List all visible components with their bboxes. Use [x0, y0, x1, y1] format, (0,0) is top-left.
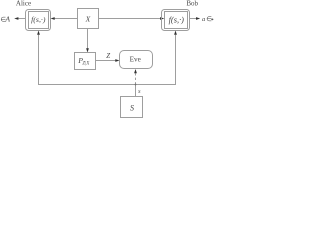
wire s bus horizontal: [38, 84, 176, 86]
svg-text:X: X: [85, 15, 91, 24]
arrowhead into Alice: [51, 17, 55, 20]
wire X down to PZ|X: [87, 29, 89, 50]
block Alice f(s,.): [29, 12, 49, 29]
block PZ|X: [75, 53, 96, 70]
node A tip (clipped calligraphic A): [211, 19, 213, 21]
block Bob container (rounded): [162, 10, 190, 31]
junction s bus: [135, 84, 137, 86]
wire Alice to X: [54, 18, 78, 20]
block Eve (rounded): [120, 51, 153, 69]
block X: [78, 9, 99, 29]
svg-text:S: S: [130, 104, 134, 113]
svg-text:Bob: Bob: [186, 0, 198, 8]
arrowhead to a: [196, 17, 200, 20]
svg-text:A: A: [4, 14, 10, 23]
arrowhead into Bob bottom: [174, 31, 177, 35]
svg-text:Eve: Eve: [130, 56, 141, 64]
wire s up to Bob: [175, 35, 177, 85]
arrowhead into PZ|X: [86, 48, 89, 52]
block Bob f(s,.): [165, 12, 188, 29]
wire dashed s to Eve: [135, 73, 137, 85]
wire X to Bob: [99, 18, 162, 20]
wire Bob output right: [190, 18, 197, 20]
wire Z from PZ|X to Eve: [96, 60, 117, 62]
wire S box up to bus: [135, 85, 137, 97]
arrowhead into Alice bottom: [37, 31, 40, 35]
svg-text:Z|X: Z|X: [82, 62, 90, 67]
svg-text:Z: Z: [106, 52, 110, 60]
svg-text:Alice: Alice: [16, 0, 31, 8]
block S source: [121, 97, 143, 118]
arrowhead into Eve bottom: [134, 69, 137, 73]
wire s up to Alice: [38, 35, 40, 85]
arrowhead into Bob: [160, 17, 164, 20]
arrowhead into Eve: [115, 59, 119, 62]
svg-text:f(s,·): f(s,·): [31, 15, 46, 24]
arrowhead to estimate (left): [14, 17, 18, 20]
block Alice container (rounded): [26, 10, 51, 31]
wire output Alice left: [17, 18, 25, 20]
svg-text:f(s,·): f(s,·): [169, 15, 185, 24]
